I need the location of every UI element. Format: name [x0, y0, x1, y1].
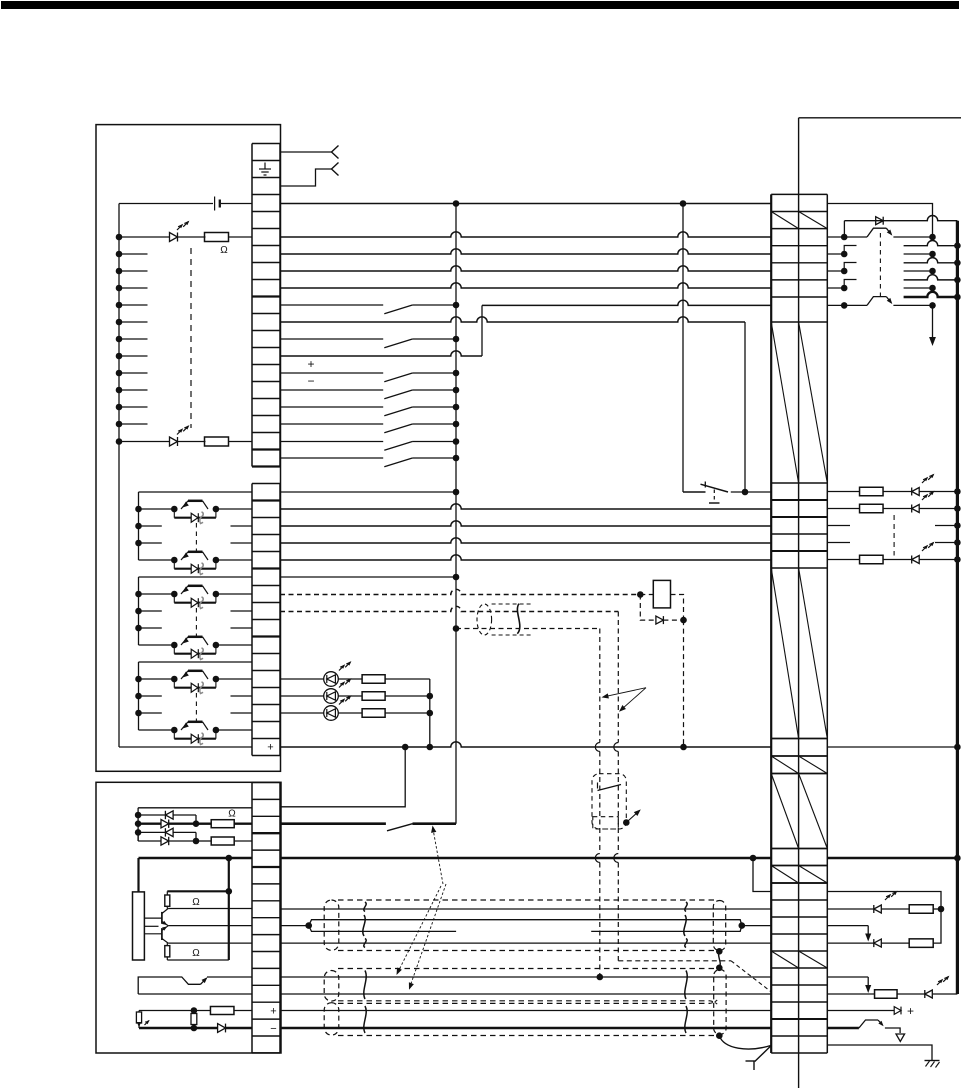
junction dot diode row — [680, 617, 687, 624]
connector tall diagonal cell 3 — [771, 774, 798, 849]
diode minus row — [218, 1024, 226, 1033]
wire battery to strip — [221, 203, 252, 205]
shield oval group B left lower — [324, 1003, 339, 1035]
forced stop switch — [704, 482, 706, 488]
resistor row 943 right — [909, 939, 933, 948]
connector strip (servo amplifier, two columns) — [771, 193, 827, 195]
dashed wire from relay coil — [671, 595, 684, 621]
flyback diode branch — [640, 595, 656, 621]
driver resistor lower — [165, 946, 170, 957]
analog wire row 994 — [280, 993, 771, 995]
connector cell diagonal (mid pair 1) — [771, 756, 798, 774]
option switch blade — [597, 783, 599, 789]
earth ground symbol in strip cell 2 — [264, 163, 266, 170]
dashed wire row 594.5 to relay — [280, 589, 640, 594]
dashed cable run down 1 — [617, 612, 619, 743]
pulse diode pair 2 upper — [135, 829, 142, 836]
opto output group 2 — [139, 576, 253, 578]
wire bus2 to forced-stop switch — [683, 491, 706, 493]
LED row 909 right — [827, 908, 874, 910]
wire row 577 strip to bus1 — [280, 576, 456, 578]
wire LG loop row 891.5 — [827, 892, 941, 910]
shield drain curve to connector — [719, 1036, 770, 1049]
resistor PP — [211, 820, 234, 828]
svg-text:+: + — [270, 1006, 276, 1018]
output row 492 (resistor + photocoupler) — [827, 491, 859, 493]
dashed wire diode to junction — [663, 619, 683, 621]
wire bus to +24V strip row — [119, 746, 252, 748]
svg-text:+: + — [907, 1004, 914, 1018]
connector shell stroke — [756, 1046, 771, 1061]
svg-text:Ω: Ω — [220, 245, 228, 256]
wire up x482 — [481, 305, 483, 356]
shield dashed group B top — [338, 968, 714, 970]
shield link dots — [716, 948, 723, 955]
input switch S4 row 390 — [280, 389, 383, 391]
wire pair to connector — [742, 925, 771, 927]
shield dashed group B bottom — [338, 1035, 714, 1037]
complement channel wire LG (bold) — [904, 292, 958, 297]
connector tall diagonal cell 1 — [771, 322, 798, 483]
input switch S3 row 373 — [280, 372, 383, 374]
twist marks group B left — [364, 971, 366, 1000]
output row 560 (resistor + photocoupler) — [827, 559, 859, 561]
junction dot pair right — [739, 922, 746, 929]
wire NP to strip — [234, 840, 252, 842]
junction dot bus1 power row — [453, 200, 460, 207]
wire LG row in box (bold) — [139, 857, 253, 860]
signal wire row 560 to servo connector — [280, 555, 771, 560]
LED indicator bus — [429, 679, 431, 747]
wire resistor to dot — [933, 908, 941, 910]
dashed cable run down 2 — [599, 629, 601, 743]
output repetition dashed — [893, 515, 895, 556]
encoder pair fork left — [280, 925, 309, 927]
signal wire row 305 to servo connector — [482, 300, 771, 305]
servo amplifier box top edge — [799, 117, 961, 119]
option dashed box outer — [592, 774, 626, 829]
junction dot 747 a — [402, 744, 409, 751]
wire row 977 arrow down — [827, 976, 868, 978]
earth ground bottom right — [925, 1060, 940, 1062]
wire 747 down to OPC row — [281, 747, 406, 807]
shield dashed group B mid lower — [338, 1002, 710, 1004]
relay coil RA — [653, 580, 670, 608]
signal wire row 543 to servo connector — [280, 538, 771, 543]
wire resistor to LED 994 — [897, 993, 925, 995]
shield oval group B right — [714, 970, 726, 1035]
dashed diagonal to connector pin — [731, 961, 771, 992]
battery symbol — [214, 197, 216, 211]
wire connector to receiver row 305 — [827, 304, 844, 306]
callout arrow to VDD switch — [433, 829, 443, 884]
wire pulse out row to strip — [168, 908, 252, 910]
driver IC pins — [144, 917, 162, 919]
connector cell diagonal (top pair) — [771, 212, 798, 229]
controller box outline (lower) — [96, 782, 281, 1053]
shield oval group B left upper — [324, 971, 339, 1002]
wire pulse low row to strip — [168, 942, 252, 944]
wire power row left — [119, 203, 213, 205]
pull-up diode wire — [844, 215, 957, 220]
wire connector to receiver row 237 — [827, 236, 844, 238]
input switch S1 row 305 — [280, 304, 383, 306]
far right encoder common bus (bold) — [956, 221, 959, 994]
resistor plus row — [210, 1007, 234, 1015]
connector cell diagonal (mid pair 2) — [771, 866, 798, 884]
junction dot dashed to analog row — [597, 974, 604, 981]
connector cell diagonal (bottom pair) — [771, 951, 798, 968]
complement channel wires to common bus — [904, 240, 958, 245]
analog wire row 977 — [280, 976, 771, 978]
twist marks group B right — [685, 971, 687, 1000]
driver resistor upper — [165, 895, 170, 906]
opto output group 1 — [139, 491, 253, 493]
pulse network left vertical — [137, 808, 139, 841]
svg-text:Ω: Ω — [228, 809, 236, 820]
junction dot 747 far right — [954, 744, 961, 751]
receiver coupling dashed — [879, 233, 881, 299]
junction dot top rail — [226, 888, 233, 895]
svg-text:+: + — [307, 357, 314, 371]
battery plus row 1010.5 right — [827, 1010, 894, 1012]
signal wire row 356 — [280, 351, 482, 356]
callout arrow to analog row 1 — [399, 886, 442, 971]
signal wire row 322 — [280, 317, 745, 322]
wire LG row right of connector (bold) — [827, 857, 957, 860]
svg-text:Ω: Ω — [192, 948, 200, 959]
connector tall diagonal cell 2 — [771, 568, 798, 739]
encoder wire row 909 — [280, 908, 771, 910]
wire VDD row bold — [280, 822, 386, 825]
wire plus row — [139, 1010, 194, 1012]
resistor row 909 right — [909, 905, 933, 914]
servo amplifier box left edge (upper) — [798, 118, 800, 195]
wire PP to strip (bold) — [234, 823, 252, 825]
junction dot row 628.5 bus1 — [453, 625, 460, 632]
open emitter triangle — [896, 1034, 905, 1042]
pulse row NP — [137, 832, 139, 841]
dashed wire row 611.5 — [280, 606, 618, 611]
photocoupler input row 1 — [116, 234, 123, 241]
wire LED to far bus — [933, 993, 958, 995]
receiver transistor lower — [844, 304, 867, 306]
svg-text:+: + — [267, 742, 273, 754]
signal wire row 254 to servo connector — [280, 249, 771, 254]
wire row 492 strip to bus1 — [280, 491, 456, 493]
resistor row 994 — [875, 990, 898, 999]
transistor row 1028 (bold) — [827, 1027, 859, 1029]
encoder wire row 943 — [280, 942, 771, 944]
junction dot bus2 power row — [680, 200, 687, 207]
junction dot 747 b — [427, 744, 434, 751]
driver top rail (bold) — [167, 890, 229, 892]
svg-text:−: − — [307, 374, 314, 388]
driver supply vertical (bold) — [228, 858, 230, 960]
common bus 1 vertical — [455, 204, 457, 824]
left internal bus — [118, 204, 120, 748]
junction dot relay coil — [637, 591, 644, 598]
junction dot LG far right — [954, 855, 961, 862]
signal wire row 509 to servo connector — [280, 504, 771, 509]
wire to external shield connector 1 — [280, 151, 332, 153]
output stub row 526 — [827, 525, 850, 527]
wire row 925.6 arrow down — [827, 925, 868, 927]
terminal strip (lower controller) — [252, 782, 280, 784]
driver transistor upper — [161, 912, 163, 924]
signal wire row 288 to servo connector — [280, 283, 771, 288]
option dashed box inner — [593, 817, 619, 829]
signal wire row 526 to servo connector — [280, 521, 771, 526]
external connector arrow 1 — [332, 146, 339, 159]
dashed repetition line (inputs) — [190, 248, 192, 428]
opto output group 3 — [139, 661, 253, 663]
encoder pair lower wire right segment — [591, 926, 742, 932]
shield pair close marks — [710, 1001, 718, 1005]
wire from external shield connector 2 — [280, 169, 332, 186]
terminal strip (upper controller, output section) — [252, 483, 280, 485]
LED indicator row 696 — [280, 695, 324, 697]
receiver loop (analog rows) — [138, 977, 200, 994]
LED indicator row 679 — [280, 678, 324, 680]
twist marks group A right — [685, 902, 687, 912]
wire switch to servo connector row 492 — [731, 491, 771, 493]
input switch S7 row 441.5 — [280, 441, 383, 443]
wire +24V row — [280, 742, 771, 747]
ground wire row 1045 — [827, 1045, 932, 1061]
LED vertical element — [136, 1012, 141, 1023]
MO output row 994 — [827, 993, 874, 995]
svg-text:−: − — [270, 1023, 276, 1035]
header bar — [1, 1, 959, 9]
wire LG row cable (bold) — [280, 857, 771, 860]
wire down x745 — [744, 322, 746, 492]
driver IC block — [133, 892, 145, 960]
shield oval group A left — [324, 900, 339, 950]
signal wire row 271 to servo connector — [280, 266, 771, 271]
callout arrow northeast — [623, 819, 630, 826]
flyback diode — [656, 616, 664, 624]
dashed wire to monitor row — [618, 960, 731, 962]
wire +24V row right of connector (to far bus) — [827, 746, 957, 748]
input switch S5 row 407 — [280, 406, 383, 408]
receiver ground arrow — [932, 305, 934, 339]
svg-text:Ω: Ω — [192, 897, 200, 908]
forced stop dashed actuator — [713, 490, 715, 501]
receiver channel stubs (right) — [904, 253, 933, 255]
resistor NP — [211, 837, 234, 845]
external connector arrow 2 — [332, 163, 339, 176]
wire resistor up to dot — [933, 909, 941, 943]
LED row 943 right — [827, 942, 874, 944]
dashed wire relay return down — [683, 620, 685, 747]
callout arrow pair to cable runs — [605, 688, 646, 697]
input switch S8 row 458 — [280, 457, 383, 459]
terminal strip (upper controller, input section) — [252, 143, 280, 145]
pull-up diode — [876, 217, 884, 225]
dashed wire into relay coil — [640, 594, 653, 596]
VDD switch blade — [387, 824, 413, 831]
dashed wire row 628.5 — [456, 628, 600, 630]
receiver transistor upper — [844, 236, 867, 238]
wire pulse mid row to strip — [168, 925, 252, 927]
LG left vertical (bold) — [137, 858, 139, 892]
shield oval group A right — [713, 901, 725, 951]
input switch S2 row 339 — [280, 338, 383, 340]
LG jog to connector — [750, 855, 757, 862]
common bus 2 vertical — [682, 204, 684, 493]
input common stubs on left bus — [116, 251, 123, 258]
output stub row 543 — [827, 542, 850, 544]
shunt resistor vertical — [191, 1014, 197, 1025]
LED row 994 — [924, 990, 926, 998]
wire battery row 1010.5 across — [280, 1010, 771, 1012]
shield dashed group B mid upper — [338, 1000, 710, 1002]
photocoupler input row 2 — [116, 438, 123, 445]
servo amplifier box left edge (lower) — [798, 1053, 800, 1088]
shield dashed group A bottom — [338, 950, 714, 952]
input switch S6 row 424 — [280, 423, 383, 425]
wire diode to collector — [843, 221, 845, 237]
junction dot row 492 right — [742, 489, 749, 496]
twisted pair mark (relay rows) — [477, 604, 492, 635]
driver bottom rail — [167, 959, 229, 961]
pulse row PP (bold) — [135, 820, 142, 827]
wire plus row to strip — [234, 1010, 252, 1012]
wire power row right of connector — [827, 204, 932, 238]
plate symbol — [746, 1060, 757, 1062]
wire VDD switch to bus1 (bold) — [413, 822, 457, 825]
junction dot 941 — [938, 906, 945, 913]
controller box outline (upper) — [96, 125, 281, 772]
driver transistor lower — [161, 928, 163, 940]
signal wire row 237 to servo connector — [280, 232, 771, 237]
output row 509 (resistor + photocoupler) — [827, 508, 859, 510]
wire power row mid — [280, 203, 771, 205]
twist marks group A left — [364, 902, 366, 912]
OPC rail row — [138, 807, 252, 809]
shield drain dot — [716, 1032, 723, 1039]
receiver channel stubs (left) — [827, 253, 844, 255]
junction dot relay return on +24 row — [680, 744, 687, 751]
shield link curve — [719, 951, 721, 968]
pulse diode pair 1 upper — [135, 812, 142, 819]
LED indicator row 713 — [280, 712, 324, 714]
shield dashed group A top — [338, 899, 714, 901]
wire minus row (bold) — [139, 1027, 194, 1029]
wire minus row 1028 across (bold) — [280, 1027, 771, 1029]
junction dot LG rail — [226, 855, 233, 862]
callout arrow to analog row 2 — [411, 884, 447, 985]
wire minus to strip (bold) — [226, 1027, 253, 1029]
